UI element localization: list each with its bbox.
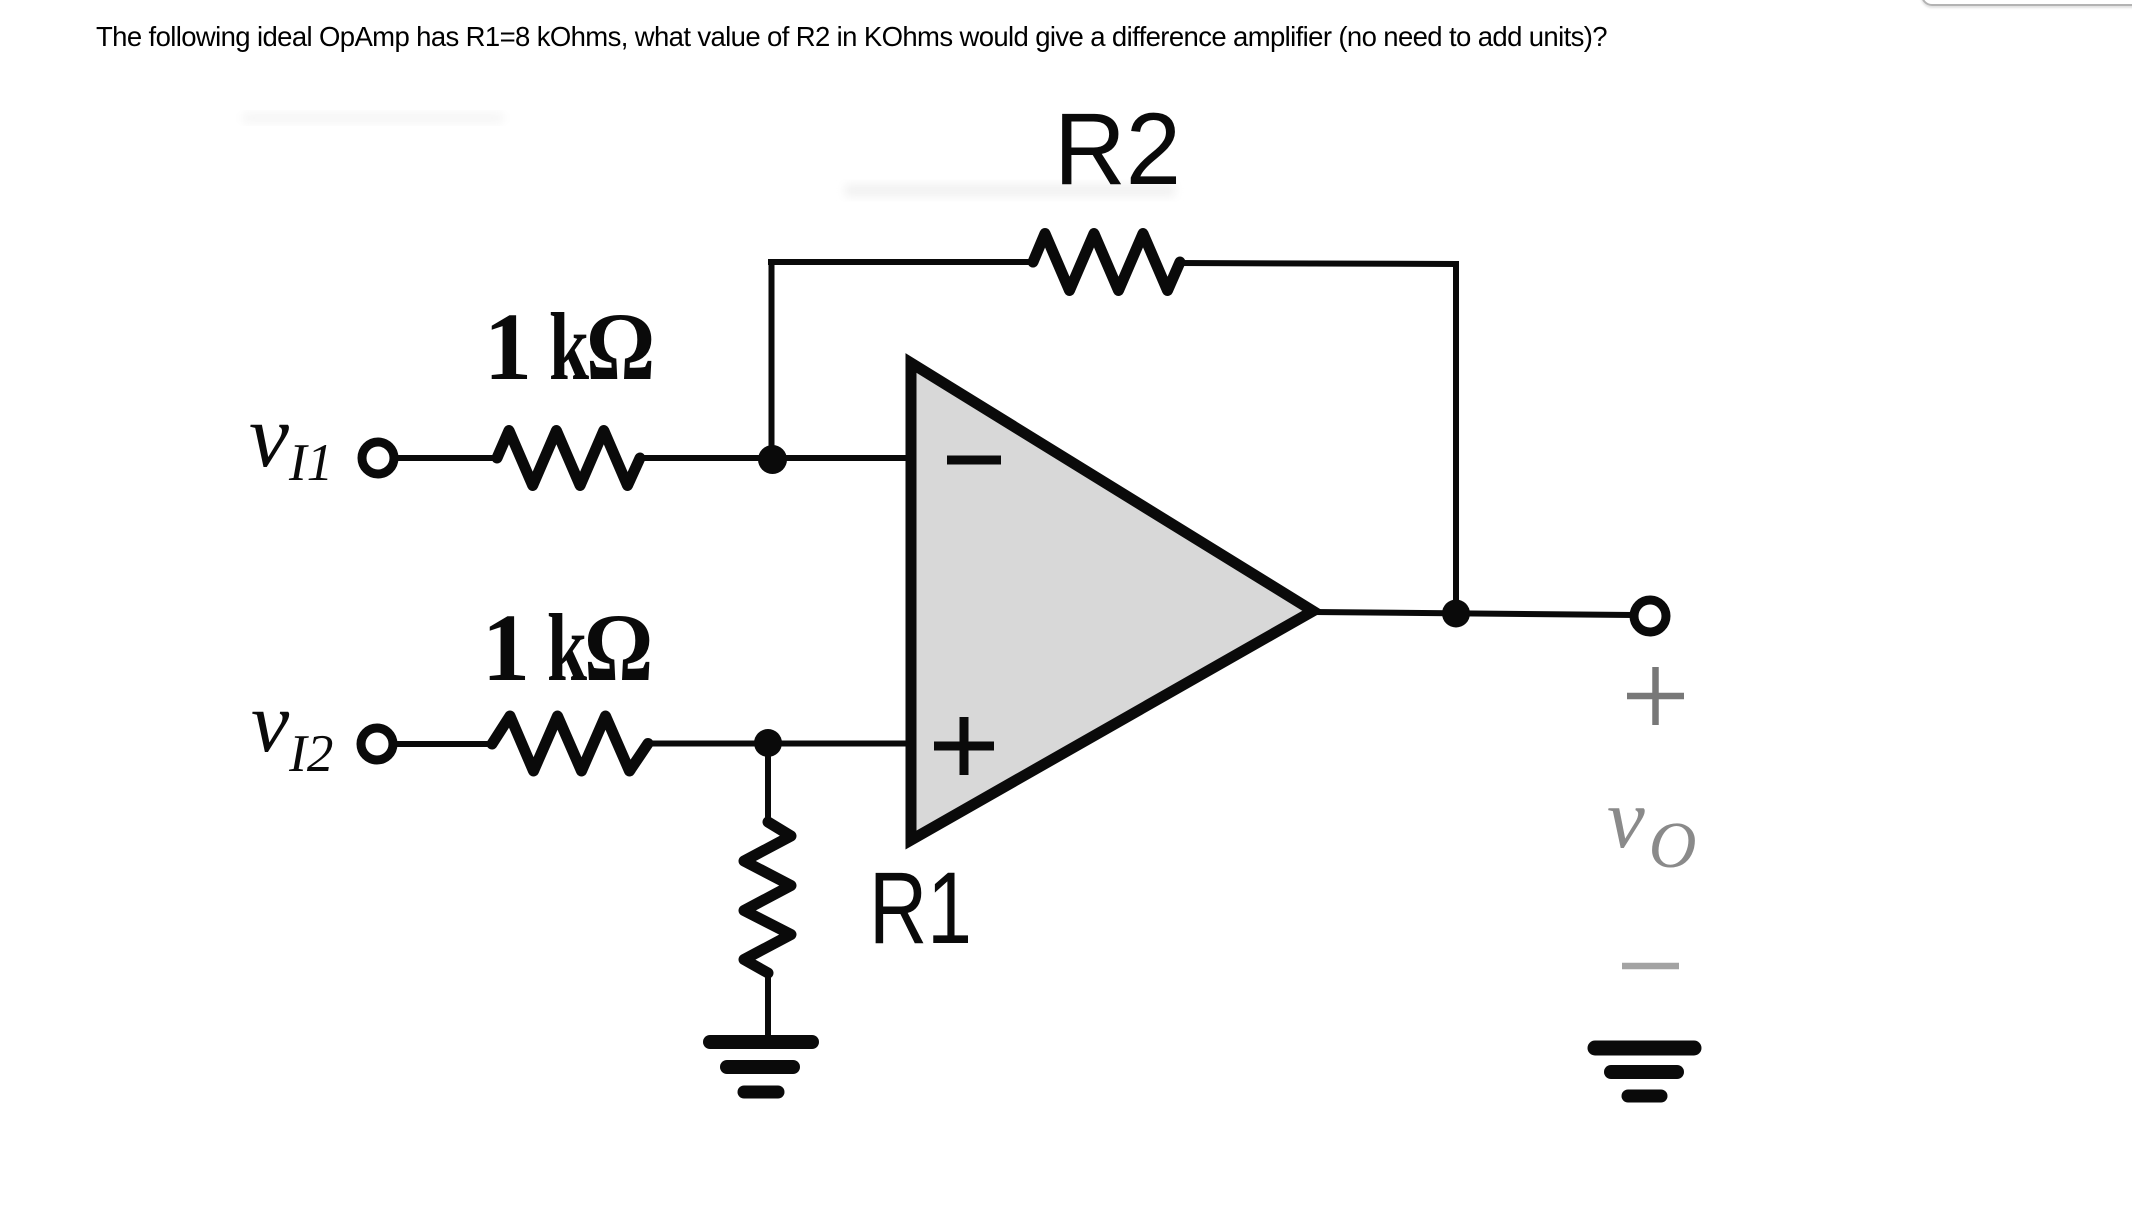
svg-text:R1: R1 bbox=[869, 851, 972, 965]
node C (output junction) bbox=[1442, 600, 1470, 628]
terminal vO bbox=[1634, 600, 1666, 632]
ground (left) bbox=[710, 1042, 812, 1092]
wire feedback left vertical bbox=[769, 262, 775, 456]
svg-text:1: 1 bbox=[484, 293, 532, 400]
svg-text:k: k bbox=[549, 294, 590, 400]
wire vI1 to resistor bbox=[396, 455, 500, 461]
wire node B down to R1 bbox=[765, 748, 771, 824]
label 1 kOhm (input 1) bbox=[484, 293, 655, 400]
minus polarity label (output) bbox=[1622, 963, 1679, 970]
plus pin (non-inverting input) bbox=[934, 717, 994, 775]
svg-text:Ω: Ω bbox=[586, 294, 655, 400]
resistor 1 kOhm (input 1) bbox=[497, 431, 640, 486]
svg-text:k: k bbox=[547, 595, 588, 701]
wire vI2 to resistor bbox=[395, 741, 496, 747]
svg-text:vI2: vI2 bbox=[251, 674, 333, 783]
node A (inverting input junction) bbox=[758, 445, 787, 474]
node B (non-inverting input junction) bbox=[754, 729, 782, 757]
plus polarity label (output) bbox=[1627, 667, 1684, 725]
label vI2 bbox=[251, 674, 333, 783]
label 1 kOhm (input 2) bbox=[482, 594, 653, 701]
svg-text:vO: vO bbox=[1607, 772, 1696, 882]
minus pin (inverting input) bbox=[947, 456, 1001, 465]
wire feedback top left bbox=[768, 259, 1034, 265]
resistor R1 bbox=[744, 822, 791, 973]
terminal vI2 bbox=[361, 728, 393, 760]
resistor 1 kOhm (input 2) bbox=[492, 716, 648, 771]
label vO bbox=[1607, 772, 1696, 882]
resistor R2 bbox=[1033, 234, 1180, 291]
wire feedback right vertical bbox=[1453, 261, 1459, 614]
terminal vI1 bbox=[362, 442, 394, 474]
question text bbox=[96, 21, 1607, 53]
op-amp U1 bbox=[911, 363, 1313, 840]
ground (right) bbox=[1595, 1048, 1694, 1096]
svg-text:1: 1 bbox=[482, 594, 530, 701]
wire resistor to inverting input bbox=[639, 455, 908, 461]
wire op-amp output bbox=[1313, 612, 1633, 615]
wire R1 to ground bbox=[765, 971, 771, 1040]
label vI1 bbox=[249, 387, 333, 492]
svg-text:R2: R2 bbox=[1054, 92, 1181, 206]
wire feedback top right bbox=[1179, 263, 1456, 264]
svg-text:vI1: vI1 bbox=[249, 387, 333, 492]
wire resistor to non-inverting input bbox=[646, 741, 908, 747]
svg-text:Ω: Ω bbox=[584, 595, 653, 701]
